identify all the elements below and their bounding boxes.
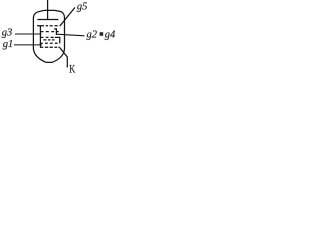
svg-text:g5: g5 xyxy=(77,1,88,12)
svg-text:g4: g4 xyxy=(105,29,116,40)
svg-text:g3: g3 xyxy=(2,28,13,39)
svg-text:K: K xyxy=(69,63,76,76)
svg-text:g1: g1 xyxy=(3,39,14,50)
svg-text:g2: g2 xyxy=(87,29,98,40)
